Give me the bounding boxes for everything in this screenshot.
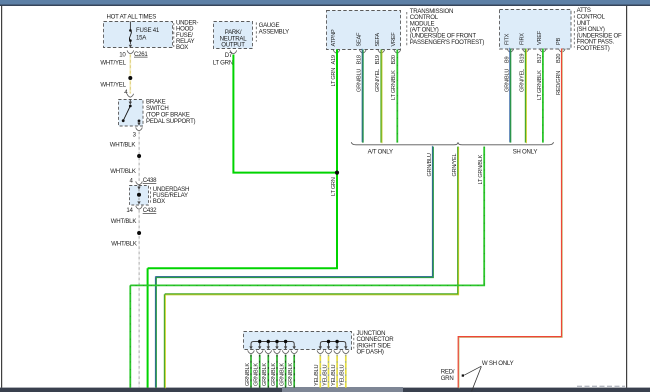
svg-text:PB: PB bbox=[556, 38, 562, 45]
svg-text:GRN/BLK: GRN/BLK bbox=[254, 363, 260, 386]
wire LT GRN/BLK from VREF ATTS bbox=[542, 49, 544, 143]
brace A/T-SH merge bbox=[351, 142, 553, 145]
wire WHT/BLK brake switch to C438 bbox=[138, 132, 140, 182]
svg-text:W SH ONLY: W SH ONLY bbox=[482, 360, 514, 367]
wire labels GRN/BLK bbox=[245, 363, 294, 386]
splice dot on WHT/BLK bbox=[137, 154, 141, 158]
wire inside underdash box bbox=[138, 189, 140, 201]
label PARK/NEUTRAL OUTPUT bbox=[220, 29, 248, 49]
svg-text:LT GRN/BLK: LT GRN/BLK bbox=[391, 70, 397, 100]
wire GRN/YEL left drop bbox=[164, 294, 166, 387]
left page border bbox=[1, 6, 2, 388]
under-hood fuse/relay box bbox=[104, 22, 173, 48]
svg-text:PEDAL SUPPORT): PEDAL SUPPORT) bbox=[146, 118, 196, 125]
label JUNCTION CONNECTOR bbox=[357, 330, 395, 356]
svg-text:GRN/YEL: GRN/YEL bbox=[452, 154, 458, 177]
wire labels YEL/BLU bbox=[314, 365, 346, 386]
svg-text:B20: B20 bbox=[391, 55, 397, 64]
label UNDER-HOOD FUSE/RELAY BOX bracket bbox=[173, 23, 175, 47]
window top bar bbox=[0, 0, 650, 5]
wire LT GRN trunk bbox=[148, 50, 337, 269]
brake switch arrow in bbox=[129, 100, 132, 105]
left bus drops bbox=[260, 342, 286, 348]
svg-text:B19: B19 bbox=[375, 55, 381, 64]
transmission control module box bbox=[327, 11, 401, 50]
svg-text:WHT/YEL: WHT/YEL bbox=[100, 82, 126, 89]
svg-text:YEL/BLU: YEL/BLU bbox=[314, 365, 320, 386]
connector below FITX bbox=[507, 49, 514, 52]
label UNDER-HOOD FUSE/RELAY BOX bbox=[176, 19, 198, 51]
svg-text:GRN/YEL: GRN/YEL bbox=[375, 69, 381, 92]
svg-text:FOOTREST): FOOTREST) bbox=[577, 45, 610, 52]
left bus bar bbox=[251, 342, 294, 348]
svg-text:VREF: VREF bbox=[391, 32, 397, 47]
label ATTS bracket bbox=[573, 11, 575, 48]
right bus arrows bbox=[319, 346, 348, 349]
svg-text:GRN/BLK: GRN/BLK bbox=[280, 363, 286, 386]
connector below FIRX bbox=[522, 49, 529, 52]
wire GRN/YEL merged bbox=[165, 147, 458, 295]
label TRANSMISSION CONTROL MODULE bbox=[410, 8, 485, 46]
label TCM bracket bbox=[406, 12, 408, 47]
svg-text:FIRX: FIRX bbox=[520, 33, 526, 45]
connector into brake switch bbox=[127, 94, 134, 97]
svg-text:ATPNP: ATPNP bbox=[331, 29, 337, 47]
connector C261 symbol bbox=[127, 50, 134, 53]
wire WHT/YEL fuse to brake switch bbox=[129, 55, 131, 94]
bottom scrollbar thumb bbox=[282, 387, 403, 392]
svg-text:C432: C432 bbox=[143, 207, 157, 214]
junction exit connectors bbox=[248, 350, 349, 353]
label UNDERDASH FUSE/RELAY BOX bbox=[153, 186, 189, 205]
svg-text:B17: B17 bbox=[537, 54, 543, 63]
svg-text:LT GRN: LT GRN bbox=[331, 177, 337, 196]
underdash arrow out bbox=[137, 201, 140, 204]
wires YEL/BLU group bbox=[320, 355, 346, 388]
wire GRN/YEL from SEFA bbox=[380, 50, 382, 143]
svg-text:PASSENGER'S FOOTREST): PASSENGER'S FOOTREST) bbox=[410, 39, 485, 46]
svg-text:LT GRN/BLK: LT GRN/BLK bbox=[537, 70, 543, 100]
label JUNCTION CONNECTOR bracket bbox=[353, 334, 355, 349]
splice dot LT GRN bbox=[335, 171, 339, 175]
fuse F41 lead wires bbox=[129, 22, 131, 45]
wire GRN/YEL from FIRX bbox=[525, 49, 527, 143]
right bus bar bbox=[320, 342, 346, 348]
svg-text:GRN/BLK: GRN/BLK bbox=[262, 363, 268, 386]
svg-text:VREF: VREF bbox=[537, 30, 543, 45]
connector below SEFA bbox=[378, 50, 385, 53]
svg-text:GRN: GRN bbox=[441, 375, 454, 382]
left bus arrows bbox=[249, 346, 296, 349]
brake switch arrow out bbox=[137, 122, 140, 126]
svg-text:10: 10 bbox=[119, 52, 126, 59]
connector below PB bbox=[559, 49, 566, 52]
underdash arrow in bbox=[137, 185, 140, 190]
svg-text:C438: C438 bbox=[143, 177, 157, 184]
fuse 41 element bbox=[129, 29, 132, 42]
window top bar border bbox=[0, 5, 650, 7]
brake switch contacts and blade bbox=[122, 105, 141, 123]
wire LT GRN gauge to junction bbox=[233, 55, 337, 173]
svg-text:B19: B19 bbox=[520, 54, 526, 63]
svg-text:GRN/BLK: GRN/BLK bbox=[271, 363, 277, 386]
leader line to bottom bbox=[472, 367, 482, 392]
connector C432 symbol bbox=[136, 206, 143, 209]
connector below ATPNP bbox=[333, 50, 340, 53]
label GAUGE ASSEMBLY bbox=[259, 22, 290, 35]
svg-text:WHT/BLK: WHT/BLK bbox=[111, 241, 137, 248]
cut-off text marks bottom right bbox=[577, 385, 625, 387]
svg-text:BOX: BOX bbox=[176, 44, 188, 51]
connector below park/neutral output bbox=[230, 50, 237, 53]
ATTS control unit box bbox=[500, 10, 572, 50]
right page border bbox=[626, 6, 627, 388]
svg-text:LT GRN: LT GRN bbox=[213, 59, 233, 66]
svg-text:3: 3 bbox=[133, 131, 137, 138]
junction connector box bbox=[244, 332, 352, 350]
right bus drops bbox=[329, 342, 338, 348]
svg-text:RED/GRN: RED/GRN bbox=[556, 71, 562, 95]
label RED/GRN bbox=[441, 368, 455, 381]
svg-text:YEL/BLU: YEL/BLU bbox=[331, 365, 337, 386]
connector below brake switch bbox=[136, 127, 143, 130]
wire GRN/BLU merged bbox=[156, 147, 433, 278]
svg-text:WHT/YEL: WHT/YEL bbox=[100, 60, 126, 67]
wire RED/GRN from PB bbox=[458, 49, 561, 388]
arrow out of fuse box bbox=[129, 45, 132, 48]
right bus splice dots bbox=[327, 340, 339, 343]
underdash fuse/relay box bbox=[130, 186, 149, 206]
svg-text:WHT/BLK: WHT/BLK bbox=[110, 168, 136, 175]
left bus splice dots bbox=[258, 340, 287, 343]
brake switch box bbox=[119, 100, 144, 127]
svg-text:WHT/BLK: WHT/BLK bbox=[111, 218, 137, 225]
svg-text:GRN/YEL: GRN/YEL bbox=[520, 69, 526, 92]
wire GRN/BLU from FITX bbox=[509, 49, 511, 143]
wire LT GRN/BLK from VREF TCM bbox=[396, 50, 398, 143]
svg-text:C261: C261 bbox=[134, 51, 148, 58]
svg-text:D7: D7 bbox=[225, 52, 233, 59]
svg-text:B20: B20 bbox=[556, 54, 562, 63]
svg-text:YEL/BLU: YEL/BLU bbox=[340, 365, 346, 386]
splice dot on WHT/YEL bbox=[128, 76, 132, 80]
svg-text:BOX: BOX bbox=[153, 198, 165, 205]
svg-text:HOT AT ALL TIMES: HOT AT ALL TIMES bbox=[107, 14, 157, 21]
svg-text:LT GRN/BLK: LT GRN/BLK bbox=[478, 154, 484, 184]
connector below VREF TCM bbox=[394, 50, 401, 53]
label FUSE 41 15A bbox=[136, 27, 160, 41]
svg-text:YEL/BLU: YEL/BLU bbox=[322, 365, 328, 386]
wire WHT/BLK C432 to bottom bbox=[138, 210, 140, 388]
leader dot bbox=[462, 374, 464, 376]
svg-text:SH ONLY: SH ONLY bbox=[513, 149, 538, 156]
wire GRN/BLU left drop bbox=[155, 277, 157, 387]
svg-text:GRN/BLK: GRN/BLK bbox=[288, 363, 294, 386]
wire GRN/BLU from SEAF bbox=[362, 50, 364, 143]
svg-text:ASSEMBLY: ASSEMBLY bbox=[259, 29, 290, 36]
svg-text:OF DASH): OF DASH) bbox=[357, 349, 384, 356]
label BRAKE SWITCH bbox=[146, 99, 196, 126]
svg-text:SEAF: SEAF bbox=[357, 32, 363, 46]
svg-text:GRN/BLK: GRN/BLK bbox=[245, 363, 251, 386]
splice dot on WHT/BLK lower bbox=[137, 231, 141, 235]
connector below SEAF bbox=[360, 50, 367, 53]
svg-text:A/T ONLY: A/T ONLY bbox=[368, 149, 393, 156]
connector C438 symbol bbox=[136, 181, 143, 184]
wires GRN/BLK group bbox=[251, 355, 294, 388]
splice dot inside underdash box bbox=[137, 193, 141, 197]
connector below VREF ATTS bbox=[540, 49, 547, 52]
svg-text:FUSE 41: FUSE 41 bbox=[136, 27, 160, 34]
svg-text:15A: 15A bbox=[136, 34, 147, 41]
wire LT GRN/BLK left drop bbox=[129, 285, 131, 387]
svg-text:14: 14 bbox=[126, 207, 133, 214]
label UNDERDASH FUSE/RELAY BOX bracket bbox=[150, 187, 152, 203]
label GAUGE ASSEMBLY bracket bbox=[255, 22, 257, 41]
wire LT GRN left drop bbox=[147, 268, 149, 387]
bottom scrollbar track bbox=[0, 388, 650, 392]
svg-text:SEFA: SEFA bbox=[375, 33, 381, 47]
leader line to red wire bbox=[464, 366, 481, 375]
svg-text:FITX: FITX bbox=[504, 33, 510, 45]
svg-text:GRN/BLU: GRN/BLU bbox=[427, 153, 433, 176]
label ATTS CONTROL UNIT bbox=[577, 7, 622, 52]
svg-text:4: 4 bbox=[130, 178, 134, 185]
park/neutral output box bbox=[214, 22, 253, 49]
svg-text:WHT/BLK: WHT/BLK bbox=[110, 141, 136, 148]
wire LT GRN/BLK merged bbox=[130, 147, 484, 286]
svg-text:OUTPUT: OUTPUT bbox=[221, 42, 245, 49]
